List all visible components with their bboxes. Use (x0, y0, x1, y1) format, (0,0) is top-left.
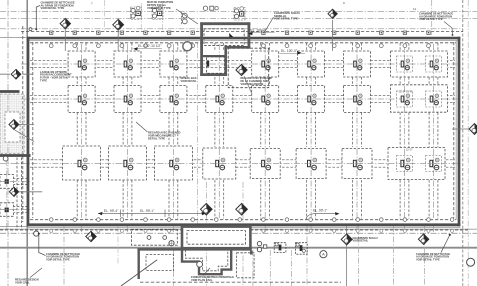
pier PW3-1 (399, 158, 411, 170)
pier top wall x121.9 (120, 31, 124, 48)
svg-text:EL. 99'-1": EL. 99'-1" (313, 209, 328, 213)
footing F3-4 (203, 148, 236, 179)
footing F3-7 (342, 149, 372, 179)
wire below-building vertical x393.6 (393, 226, 395, 286)
wire leader note top-right-mid (264, 17, 274, 33)
pier P1-3 (168, 59, 179, 70)
pier top wall x145.5 (144, 31, 148, 48)
pier left notch upper (0, 176, 13, 187)
svg-text:11'-0" | 5'-6": 11'-0" | 5'-6" (399, 90, 413, 94)
footing F3-2 (109, 146, 147, 180)
pier PW2-1 (399, 94, 410, 105)
wall stair top thick line (137, 248, 251, 251)
wire below-building dash-dot y233.3 (0, 232, 477, 234)
wall pit mid vertical (224, 46, 227, 76)
wire page left dash-dot margin line (7, 0, 9, 286)
pier cluster CL3 (131, 6, 142, 19)
wire below-building vertical x118 (117, 226, 119, 264)
wall footing dashed line above top wall (21, 31, 463, 33)
pier bottom wall x192.7 (191, 218, 195, 233)
wall bottom room rect (182, 227, 250, 249)
footing F2-6 (298, 86, 325, 113)
pier top wall x428.5 (427, 31, 431, 48)
svg-text:EL. 100'-0": EL. 100'-0" (251, 28, 268, 32)
svg-text:EL. 100'-0": EL. 100'-0" (281, 49, 298, 53)
svg-text:11: 11 (413, 7, 416, 11)
wire long dashed line under stair (140, 281, 341, 283)
pier P2-5 (260, 94, 271, 105)
pier bottom P1 x259 (257, 241, 267, 251)
wire leader mid-left note (136, 122, 148, 132)
wall dashed line below top wall (30, 42, 456, 44)
pier left notch lower (0, 205, 13, 216)
label dim D3 (280, 49, 306, 54)
footing F1-2 (114, 51, 141, 77)
wire leader regard (30, 268, 42, 278)
wire long dash-dot vertical x197.5 (197, 42, 199, 230)
wire below-building vertical x173.4 (172, 250, 174, 286)
pier P2-6 (306, 94, 317, 105)
wire below-building vertical x270.3 (269, 250, 271, 286)
wire faint verticals above top wall (104, 0, 106, 32)
node section marker S3 (328, 9, 337, 51)
pier circles above pit (203, 6, 218, 10)
pier bottom wall x334.2 (332, 218, 336, 233)
svg-text:EL. 99'-4": EL. 99'-4" (104, 209, 119, 213)
pier top wall x404.9 (403, 31, 407, 48)
wire below-building vertical x252.9 (252, 250, 254, 286)
wire far right dash-dot vertical (467, 0, 469, 286)
wire grade beam row R3 (30, 159, 455, 161)
pier cluster CL4 (152, 6, 163, 19)
pier wide R3-2 sub-rect (426, 156, 442, 172)
wall bottom thick (27, 223, 461, 226)
wire dash-dot vertical x431.7 above wall (431, 0, 433, 35)
pier P1-6 (306, 59, 317, 70)
pier top wall x263.4 (262, 31, 266, 48)
wire grade beam column x433.5 (429, 43, 438, 219)
wall right thick (458, 37, 461, 227)
pier top wall x287.0 (285, 31, 289, 48)
pier top wall x98.4 (97, 31, 101, 48)
pier bottom wall x310.6 (309, 218, 313, 233)
footing F2-4 (206, 86, 233, 113)
pier bottom wall x121.9 (120, 218, 124, 233)
wall dashed line below bottom wall (0, 229, 470, 231)
wire grade beam column x127.5 (123, 43, 132, 219)
label dim D1 (133, 44, 162, 50)
pier inside pit lower box (207, 61, 210, 67)
pier top wall x310.6 (309, 31, 313, 48)
pier bottom wall x145.5 (144, 218, 148, 233)
pier bottom wall x263.4 (262, 218, 266, 233)
wire top wall centerline dash-dot (0, 28, 463, 30)
wire grade beam column x311.1 (307, 43, 316, 219)
wall top thick (27, 37, 461, 40)
label dim D2 (248, 28, 274, 35)
wire diagonal leader bottom-left of stair (121, 260, 157, 286)
pier bottom P2 x280 (274, 243, 286, 253)
wire column centerline x433.5 (433, 44, 435, 219)
node section marker S4 (0, 69, 33, 79)
node circle A bottom x323 (320, 251, 327, 258)
footing F2-wide (391, 85, 448, 112)
wire below-building vertical x424.6 (424, 226, 426, 286)
wire bottom gray band y247.6 (0, 247, 477, 249)
node circle bottom-right edge (467, 258, 475, 266)
node section marker S12 (418, 234, 428, 244)
wall pit lower box bottom (200, 73, 227, 76)
footing F3-5 (250, 149, 280, 179)
wall pit step horizontal (224, 46, 250, 49)
footing F1-wide (391, 51, 448, 77)
wall pit lower box top (201, 55, 226, 57)
node circle bottom-left x36 (34, 231, 39, 236)
wire page top dash-dot line 1 (0, 11, 477, 13)
wire below-building vertical x64 (63, 226, 65, 286)
wall pit top horizontal (200, 22, 250, 25)
pier top wall x334.2 (332, 31, 336, 48)
footing F2-2 (114, 86, 141, 113)
node section marker S13 (452, 124, 477, 135)
pier P2-4 (214, 94, 225, 105)
pier top wall x192.7 (191, 31, 195, 48)
pier bottom P3 x301 (296, 243, 308, 255)
wall stair stepped outline (182, 248, 231, 274)
footing F2-1 (68, 86, 95, 113)
pier bottom wall x98.4 (97, 218, 101, 233)
wire grade beam row R2 (30, 94, 455, 96)
footing F1-3 (160, 51, 187, 77)
pier wide R1-1 sub-rect (397, 56, 413, 72)
wire stair inner dashed offsets (186, 250, 228, 271)
pier PW3-2 (428, 158, 440, 170)
footing F2-7 (344, 86, 371, 113)
wire below-building solid line y229 (0, 228, 477, 230)
footing F2-5 (252, 86, 279, 113)
wire dashed rect right of stair (237, 253, 255, 278)
pier P3-2 (122, 158, 134, 170)
pier P3-4 (213, 158, 225, 170)
wire grade beam column x219.3 (215, 43, 224, 219)
wire leader note top-mid (176, 9, 198, 24)
hatched wall section left side (0, 94, 24, 154)
wall thin line under top wall (27, 39, 458, 41)
wire dashed rect inside stair left chamber (146, 255, 174, 271)
wire row centerline R2 (21, 98, 462, 100)
wall pit left vertical (200, 22, 203, 76)
pier bottom wall x428.5 (427, 218, 431, 233)
pier top wall x74.8 (73, 31, 77, 48)
pier top wall x357.7 (356, 31, 360, 48)
pier bottom wall x169.1 (167, 218, 171, 233)
footing F1-5 (252, 51, 279, 77)
wire grade beam column x173.4 (169, 43, 178, 219)
wall dashed line above bottom wall (30, 219, 456, 221)
wall left step thick horizontal y91.5 (0, 90, 20, 93)
pier bottom wall x381.3 (380, 218, 384, 233)
pier PW2-2 (428, 94, 439, 105)
wire grade beam row R1 (30, 59, 455, 61)
pier top wall x381.3 (379, 31, 383, 48)
pier top wall x51.2 (49, 31, 53, 48)
pier P2-2 (122, 94, 133, 105)
pier bottom wall x74.8 (73, 218, 77, 233)
pier P1-2 (122, 59, 133, 70)
wire column centerline x219.3 (218, 44, 220, 219)
pier P3-6 (305, 158, 317, 170)
wire leader stair note (203, 268, 210, 276)
node section marker S11 (341, 234, 352, 245)
node tiny circle wall corner (29, 28, 32, 31)
wire column centerline x173.4 (172, 44, 174, 219)
wire right outer dashed vertical x462.8 (462, 0, 464, 286)
node section marker S7 (236, 64, 252, 94)
pier P2-3 (168, 94, 179, 105)
wire left notch footing centerlines (0, 160, 30, 229)
wire leader note top-left (36, 6, 40, 29)
pier P3-7 (351, 158, 363, 170)
wire page top dash-dot line 2 (0, 18, 477, 20)
footing F3-wide (388, 148, 445, 180)
pier bottom wall x357.7 (356, 218, 360, 233)
node circle left of pit (183, 42, 192, 51)
wire below-building vertical x358.5 (358, 226, 360, 286)
svg-text:EL. 100'-10 1/2": EL. 100'-10 1/2" (138, 44, 162, 48)
node section marker S1 (60, 18, 70, 51)
wall thin line under bottom wall (27, 226, 461, 228)
footing F2-3 (160, 86, 187, 113)
wire grade beam column x404.5 (400, 43, 409, 219)
wire grade beam column x265.2 (261, 43, 270, 219)
pier bottom wall x404.9 (403, 218, 407, 233)
wire below-building vertical x307 (306, 226, 308, 286)
wire grade beam column x357.0 (353, 43, 362, 219)
pier P1-7 (351, 59, 362, 70)
wire column centerline x404.5 (404, 44, 406, 219)
pier P3-3 (167, 158, 179, 170)
pier P2-7 (351, 94, 362, 105)
pier PW1-1 (399, 59, 410, 70)
pier wide R1-2 sub-rect (426, 56, 442, 72)
wire leader note top-right (444, 22, 453, 35)
node arrow symbol inside pit upper (229, 33, 233, 37)
node section marker S9 (201, 204, 213, 216)
footing F3-1 (63, 146, 101, 180)
footing F1-1 (68, 51, 95, 77)
wire below-building vertical x291.6 (291, 250, 293, 286)
pier cluster left of pit x185 (182, 13, 188, 25)
pier P3-1 (76, 158, 88, 170)
wire grade beam column x81.6 (77, 43, 86, 219)
footing F1-7 (344, 51, 371, 77)
wire leader bottom-right note (441, 236, 450, 253)
node small circle on left wall y158.6 (3, 156, 8, 161)
pier wide R2-1 sub-rect (397, 91, 413, 107)
wire column centerline x357.0 (356, 44, 358, 219)
label dim D5 bottom right (306, 209, 340, 220)
wire column centerline x311.1 (310, 44, 312, 219)
wire column centerline x265.2 (264, 44, 266, 219)
footing F3-6 (296, 149, 326, 179)
wire left notch inner dashed verticals (17, 158, 22, 230)
svg-text:11'-0": 11'-0" (406, 148, 412, 152)
wire leader bottom-left note (39, 235, 46, 256)
wire thin gray line left of top wall (0, 37, 26, 39)
footing dashed inside bottom room (187, 231, 245, 245)
pier circles on stair top line (147, 236, 174, 246)
footing dashed inside pit upper (204, 29, 244, 46)
footing dashed rect right of pit (228, 48, 269, 87)
wire row centerline R1 (21, 63, 462, 65)
wall right thin (455, 40, 457, 220)
node section marker S10 (236, 204, 248, 216)
wire column centerline x127.5 (127, 44, 129, 219)
pier P1-1 (76, 59, 87, 70)
pier bottom wall x51.2 (49, 218, 53, 233)
pier cluster CL5 (234, 7, 245, 20)
wire full-height gray line x27 (26, 0, 28, 286)
wall left notch thick horizontal y155.5 (0, 154, 31, 157)
node section marker S6 (9, 187, 42, 196)
pier wide R3-1 sub-rect (397, 156, 413, 172)
node section marker S2 (113, 19, 124, 51)
footing dashed inside pit lower (207, 57, 225, 74)
wire row centerline R3 (0, 163, 462, 165)
pier P3-5 (259, 158, 271, 170)
svg-text:EL. 99'-1": EL. 99'-1" (140, 209, 155, 213)
node section marker S8 (86, 231, 96, 241)
wire below-building vertical x206.5 (206, 182, 208, 286)
footing F3-3 (154, 146, 192, 180)
node circle at stair step (197, 261, 203, 267)
pier bottom wall x452.1 (450, 218, 454, 233)
pier bottom wall x239.8 (238, 218, 242, 233)
label dim D4 row3 left (98, 209, 206, 217)
wall left inner dashed (32, 42, 34, 218)
wall left thick (27, 37, 30, 227)
pier wide R2-2 sub-rect (426, 91, 442, 107)
pier top wall x169.1 (167, 31, 171, 48)
pier bottom wall x216.3 (215, 218, 219, 233)
pier P1-5 (260, 59, 271, 70)
wall stair left vertical (137, 249, 139, 279)
node section marker S5 (9, 120, 34, 142)
wall right inner dashed (453, 42, 455, 218)
pier PW1-2 (428, 59, 439, 70)
wire below-building solid vertical x346.5 (346, 226, 348, 286)
wall stair right stub (250, 251, 252, 255)
footing F1-6 (298, 51, 325, 77)
wire dashed room left of stair (132, 229, 178, 245)
wire left notch footing beams (0, 178, 27, 212)
svg-text:NIVEAU BASVOIR DETAIL: NIVEAU BASVOIR DETAIL (181, 76, 198, 83)
wire column centerline x81.6 (81, 44, 83, 219)
wall pit right upper vertical (247, 22, 250, 48)
svg-text:A: A (322, 252, 325, 257)
pier bottom wall x287.0 (285, 218, 289, 233)
wire below-building thin line y226.5 left part (0, 226, 27, 228)
wire white dashed rect inside hatch (5, 112, 20, 142)
footing left notch upper (0, 175, 14, 189)
footing left notch lower (0, 203, 14, 217)
pier P2-1 (76, 94, 87, 105)
wire below-building vertical x243 (242, 182, 244, 286)
wall left outer dashed (22, 26, 24, 222)
